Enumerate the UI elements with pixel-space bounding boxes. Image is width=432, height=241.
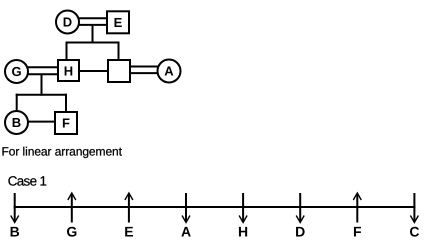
svg-text:H: H: [238, 224, 248, 240]
descent line from G-H couple: [41, 74, 43, 96]
arrow D (down): [296, 193, 304, 223]
svg-text:D: D: [295, 224, 305, 240]
arrow C (down): [410, 193, 418, 223]
drop line to H: [66, 42, 68, 61]
circle G (female): [5, 60, 28, 83]
arrow H (down): [239, 193, 247, 223]
sibling link B to F: [28, 121, 55, 123]
svg-text:A: A: [181, 224, 191, 240]
svg-text:E: E: [124, 224, 133, 240]
svg-text:G: G: [66, 224, 77, 240]
svg-text:For linear arrangement: For linear arrangement: [2, 145, 123, 159]
square E (male): [107, 11, 129, 33]
square F (male): [55, 112, 77, 134]
svg-text:A: A: [164, 64, 174, 79]
drop line to B: [16, 94, 18, 111]
arrow A (down): [182, 193, 190, 223]
svg-text:Case 1: Case 1: [8, 174, 47, 189]
svg-text:D: D: [63, 15, 72, 30]
circle A (female): [158, 60, 181, 83]
arrow G (up): [68, 193, 76, 223]
svg-text:G: G: [11, 64, 21, 79]
sibling link H to unnamed square: [79, 70, 108, 72]
circle B (female): [5, 111, 28, 134]
arrow F (up): [353, 193, 361, 223]
circle D (female): [56, 11, 79, 34]
unnamed square (male, husband of A): [108, 60, 130, 82]
drop line to unnamed square: [118, 42, 120, 61]
sibling bar (children of D and E): [66, 42, 120, 44]
descent line from D-E couple: [92, 25, 94, 44]
svg-text:H: H: [64, 63, 73, 78]
square H (male): [58, 60, 79, 81]
marriage double line D-E: [79, 17, 107, 19]
svg-text:C: C: [409, 224, 419, 240]
svg-text:B: B: [12, 115, 21, 130]
drop line to F: [65, 94, 67, 112]
svg-text:F: F: [353, 224, 362, 240]
svg-text:E: E: [114, 15, 123, 30]
sibling bar (children of G and H): [16, 94, 67, 96]
number line: [14, 206, 416, 208]
svg-text:B: B: [10, 224, 20, 240]
arrow B (down): [11, 193, 19, 223]
arrow E (up): [125, 193, 133, 223]
marriage double line G-H: [27, 66, 58, 68]
marriage double line unnamed square-A: [130, 66, 158, 68]
svg-text:F: F: [62, 116, 70, 131]
